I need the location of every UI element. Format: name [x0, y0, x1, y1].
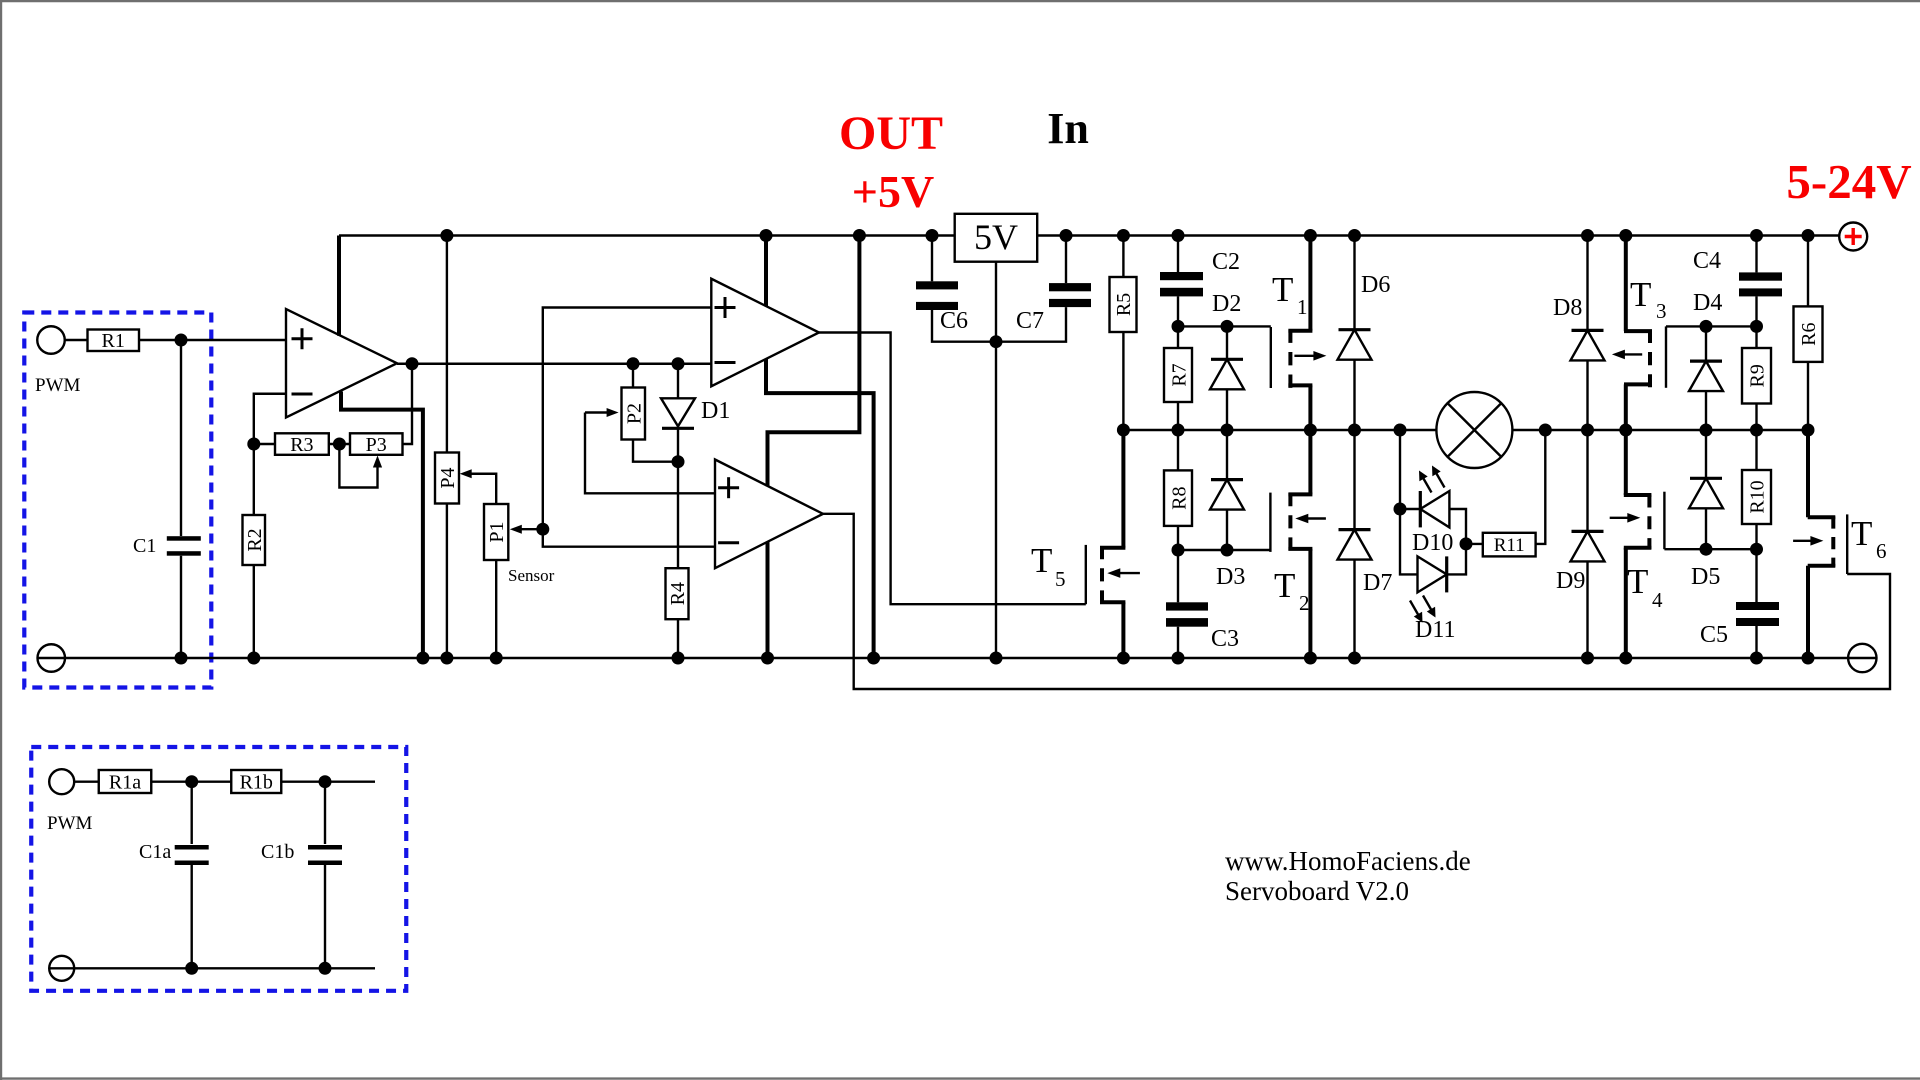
svg-text:D9: D9 — [1556, 568, 1585, 594]
svg-text:C6: C6 — [940, 308, 968, 334]
wire P3 wiper — [339, 444, 382, 488]
svg-text:R8: R8 — [1169, 487, 1191, 510]
svg-text:D3: D3 — [1216, 564, 1245, 590]
node T6 source ground — [1802, 652, 1815, 665]
page border frame left — [0, 0, 2, 1080]
node T3-T4 mid rail — [1619, 424, 1632, 437]
node D6-D7 mid rail — [1348, 424, 1361, 437]
wire T4 gate row — [1664, 548, 1756, 550]
node T3 drain rail — [1619, 229, 1632, 242]
svg-text:R3: R3 — [290, 434, 313, 456]
resistor R6 — [1794, 236, 1823, 431]
svg-text:3: 3 — [1656, 299, 1667, 323]
resistor R1 — [88, 330, 287, 353]
svg-text:D6: D6 — [1361, 272, 1390, 298]
svg-text:D2: D2 — [1212, 291, 1241, 317]
op-amp U2 — [711, 279, 819, 387]
wire U1 inverting input — [254, 394, 286, 444]
wire U1 V- to ground — [341, 392, 423, 659]
diode D6 — [1338, 236, 1391, 431]
svg-text:1: 1 — [1297, 295, 1308, 319]
svg-text:4: 4 — [1652, 588, 1663, 612]
top +5V rail — [339, 234, 1839, 236]
node R5 rail — [1117, 229, 1130, 242]
resistor R8 — [1164, 430, 1192, 550]
node R1a-C1a junction — [185, 775, 198, 788]
svg-text:D4: D4 — [1693, 290, 1722, 316]
node R2-R3 junction — [247, 438, 260, 451]
node R11 mid rail — [1539, 424, 1552, 437]
svg-text:P3: P3 — [366, 434, 387, 456]
node D3 bottom junction — [1221, 544, 1234, 557]
node C7 rail — [1060, 229, 1073, 242]
node D5 bottom junction — [1700, 543, 1713, 556]
wire U2 V- to ground — [766, 359, 874, 658]
wire gate row T2 — [1178, 549, 1270, 551]
bottom ground rail — [65, 657, 1848, 659]
node P2 top on U1 output — [627, 357, 640, 370]
svg-text:D1: D1 — [701, 398, 730, 424]
regulator 5V — [955, 214, 1037, 658]
capacitor C6 — [916, 236, 996, 342]
node R9 mid rail — [1750, 424, 1763, 437]
resistor R10 — [1742, 430, 1771, 549]
svg-text:P4: P4 — [437, 467, 459, 488]
svg-text:R1a: R1a — [109, 772, 141, 794]
resistor R4 — [666, 462, 690, 658]
capacitor C2 — [1160, 236, 1240, 327]
svg-text:C2: C2 — [1212, 249, 1240, 275]
node D8-D9 mid rail — [1581, 424, 1594, 437]
svg-text:R1b: R1b — [240, 772, 273, 794]
potentiometer P1 — [484, 504, 508, 658]
node D2 mid rail — [1221, 424, 1234, 437]
node D2 top junction — [1221, 320, 1234, 333]
node D7 ground — [1348, 652, 1361, 665]
node R11 left junction — [1460, 537, 1473, 550]
node C2 rail — [1172, 229, 1185, 242]
svg-text:T: T — [1274, 566, 1295, 605]
mid motor rail — [1123, 429, 1808, 431]
svg-text:R11: R11 — [1494, 535, 1525, 556]
wire U2 V+ supply — [764, 236, 768, 307]
svg-text:2: 2 — [1299, 591, 1310, 615]
node C2-R7-D2 junction — [1172, 320, 1185, 333]
node bus rail — [853, 229, 866, 242]
node U1 V- ground — [416, 652, 429, 665]
terminal PWM2 input — [49, 769, 99, 794]
wire U1 V+ supply — [337, 236, 341, 336]
node C6 rail — [926, 229, 939, 242]
svg-text:PWM: PWM — [47, 813, 93, 834]
wire P1 wiper arrow — [510, 525, 543, 534]
node D4 mid rail — [1700, 424, 1713, 437]
svg-text:R7: R7 — [1169, 363, 1191, 386]
svg-text:R10: R10 — [1747, 480, 1769, 513]
wire ground PWM2 — [74, 967, 375, 969]
diode D4 — [1689, 290, 1723, 430]
node R7 mid rail — [1172, 424, 1185, 437]
node R6 rail — [1802, 229, 1815, 242]
node C1 ground — [175, 652, 188, 665]
wire gate row T1 — [1178, 325, 1271, 327]
resistor R5 — [1110, 236, 1137, 431]
svg-text:C1: C1 — [133, 535, 156, 557]
svg-text:D7: D7 — [1363, 570, 1392, 596]
svg-text:C5: C5 — [1700, 622, 1728, 648]
potentiometer P3 — [350, 364, 412, 456]
node R5-T5 mid rail — [1117, 424, 1130, 437]
svg-text:+5V: +5V — [852, 166, 934, 217]
svg-text:5V: 5V — [974, 217, 1018, 257]
node R1b-C1b junction — [319, 775, 332, 788]
wire U2 non-inverting input — [543, 308, 712, 530]
svg-text:C3: C3 — [1211, 626, 1239, 652]
diode D7 — [1338, 430, 1393, 658]
node R4 ground — [672, 652, 685, 665]
wire P4 wiper from P1 — [460, 469, 497, 504]
svg-text:P1: P1 — [486, 521, 508, 542]
blue dashed box PWM filter 1 — [24, 313, 211, 688]
svg-text:Sensor: Sensor — [508, 566, 555, 585]
wire U3 V- to ground — [766, 542, 770, 658]
svg-text:R6: R6 — [1798, 323, 1820, 346]
node D9 ground — [1581, 652, 1594, 665]
wire LED riser — [1400, 430, 1418, 574]
capacitor C5 — [1700, 549, 1779, 658]
node D8 rail — [1581, 229, 1594, 242]
diode D2 — [1210, 291, 1244, 430]
node D1 top on U1 output — [672, 357, 685, 370]
wire U1 output to U2 inverting input — [397, 363, 711, 365]
resistor R11 — [1466, 430, 1545, 556]
transistor T1 — [1271, 236, 1327, 431]
terminal 5-24V plus — [1839, 223, 1867, 251]
resistor R2 — [243, 444, 266, 658]
svg-text:T: T — [1031, 541, 1052, 580]
node U1 output — [406, 357, 419, 370]
node D1-P2-R4 junction — [672, 455, 685, 468]
svg-text:D5: D5 — [1691, 564, 1720, 590]
motor M — [1436, 392, 1512, 468]
terminal PWM ground — [38, 644, 66, 672]
node T4 source ground — [1619, 652, 1632, 665]
resistor R3 — [254, 433, 350, 456]
resistor R9 — [1742, 326, 1771, 430]
node C5 ground — [1750, 652, 1763, 665]
node sensor junction — [536, 523, 549, 536]
diode D9 — [1556, 430, 1605, 658]
svg-text:T: T — [1630, 275, 1651, 314]
node U2 supply rail — [760, 229, 773, 242]
terminal PWM input — [37, 326, 87, 354]
resistor R7 — [1164, 326, 1192, 430]
svg-text:D10: D10 — [1412, 530, 1453, 556]
node C4-R9 junction — [1750, 320, 1763, 333]
svg-text:R4: R4 — [667, 582, 689, 605]
node T1-T2 mid rail — [1304, 424, 1317, 437]
capacitor C1b — [261, 782, 342, 969]
node P1 ground — [490, 652, 503, 665]
op-amp U1 — [286, 309, 397, 418]
transistor T4 — [1610, 430, 1665, 658]
potentiometer P4 — [435, 236, 459, 659]
page border frame top — [0, 0, 1920, 2]
led D10 — [1400, 466, 1466, 557]
svg-text:5-24V: 5-24V — [1786, 154, 1911, 209]
node U2 V- ground — [867, 652, 880, 665]
diode D3 — [1210, 430, 1245, 590]
svg-text:C7: C7 — [1016, 308, 1044, 334]
svg-text:R1: R1 — [102, 330, 125, 352]
svg-text:C4: C4 — [1693, 248, 1721, 274]
capacitor C1a — [139, 782, 209, 969]
wire sensor to U3 inverting input — [543, 529, 715, 547]
node R10-C5 junction — [1750, 543, 1763, 556]
transistor T6 — [1793, 430, 1886, 658]
capacitor C4 — [1693, 236, 1782, 327]
svg-text:PWM: PWM — [35, 375, 81, 396]
wire T3 gate row — [1666, 325, 1757, 327]
node U3 V- ground — [761, 652, 774, 665]
node P4 ground — [440, 652, 453, 665]
capacitor C3 — [1166, 550, 1239, 658]
potentiometer P2 — [622, 364, 679, 462]
capacitor C7 — [996, 236, 1091, 342]
resistor R1a — [99, 770, 232, 794]
node C1b ground — [319, 962, 332, 975]
svg-text:6: 6 — [1876, 539, 1887, 563]
wire U2 output to T5 gate — [819, 333, 1086, 605]
svg-text:T: T — [1627, 562, 1648, 601]
node D4 top junction — [1700, 320, 1713, 333]
node T1 drain rail — [1304, 229, 1317, 242]
svg-text:Servoboard V2.0: Servoboard V2.0 — [1225, 876, 1409, 906]
svg-text:www.HomoFaciens.de: www.HomoFaciens.de — [1225, 846, 1471, 876]
op-amp U3 — [715, 460, 823, 569]
svg-text:R2: R2 — [244, 528, 266, 551]
node P4 top rail — [440, 229, 453, 242]
node C1a ground — [185, 962, 198, 975]
svg-text:R5: R5 — [1113, 293, 1135, 316]
terminal PWM2 ground — [49, 956, 74, 981]
terminal minus right — [1848, 644, 1876, 672]
resistor R1b — [231, 770, 375, 794]
node D6 rail — [1348, 229, 1361, 242]
svg-text:C1b: C1b — [261, 841, 294, 863]
node R3-P3 junction — [333, 438, 346, 451]
node C3 ground — [1172, 652, 1185, 665]
node R8-D3 junction — [1172, 544, 1185, 557]
node R2 ground — [247, 652, 260, 665]
led D11 — [1410, 544, 1466, 643]
diode D8 — [1553, 236, 1605, 431]
svg-text:T: T — [1272, 270, 1293, 309]
svg-text:5: 5 — [1055, 567, 1066, 591]
svg-text:T: T — [1851, 514, 1872, 553]
node R1-C1 junction — [175, 334, 188, 347]
blue dashed box PWM filter 2 — [31, 747, 406, 991]
wire P2 wiper to U3 non-inverting input — [585, 408, 715, 493]
svg-text:In: In — [1047, 104, 1089, 153]
svg-text:R9: R9 — [1747, 364, 1769, 387]
wire U3 output to T6 gate — [823, 514, 1890, 689]
diode D1 — [661, 364, 730, 462]
node motor left junction — [1394, 424, 1407, 437]
svg-text:P2: P2 — [623, 403, 645, 424]
node 5V gnd rail — [990, 652, 1003, 665]
node 5V gnd junction — [990, 335, 1003, 348]
node D10 anode junction — [1394, 503, 1407, 516]
transistor T5 — [1031, 430, 1140, 658]
svg-text:OUT: OUT — [839, 107, 943, 160]
svg-text:D8: D8 — [1553, 295, 1582, 321]
capacitor C1 — [133, 340, 201, 658]
node T5 source ground — [1117, 652, 1130, 665]
diode D5 — [1689, 430, 1723, 590]
transistor T3 — [1612, 236, 1667, 431]
node C4 rail — [1750, 229, 1763, 242]
transistor T2 — [1270, 430, 1326, 658]
page border frame bottom — [0, 1077, 1920, 1079]
svg-text:C1a: C1a — [139, 841, 171, 863]
wire +5V bus to U3 — [768, 236, 860, 487]
node T2 source ground — [1304, 652, 1317, 665]
node R6-T6 mid rail — [1802, 424, 1815, 437]
